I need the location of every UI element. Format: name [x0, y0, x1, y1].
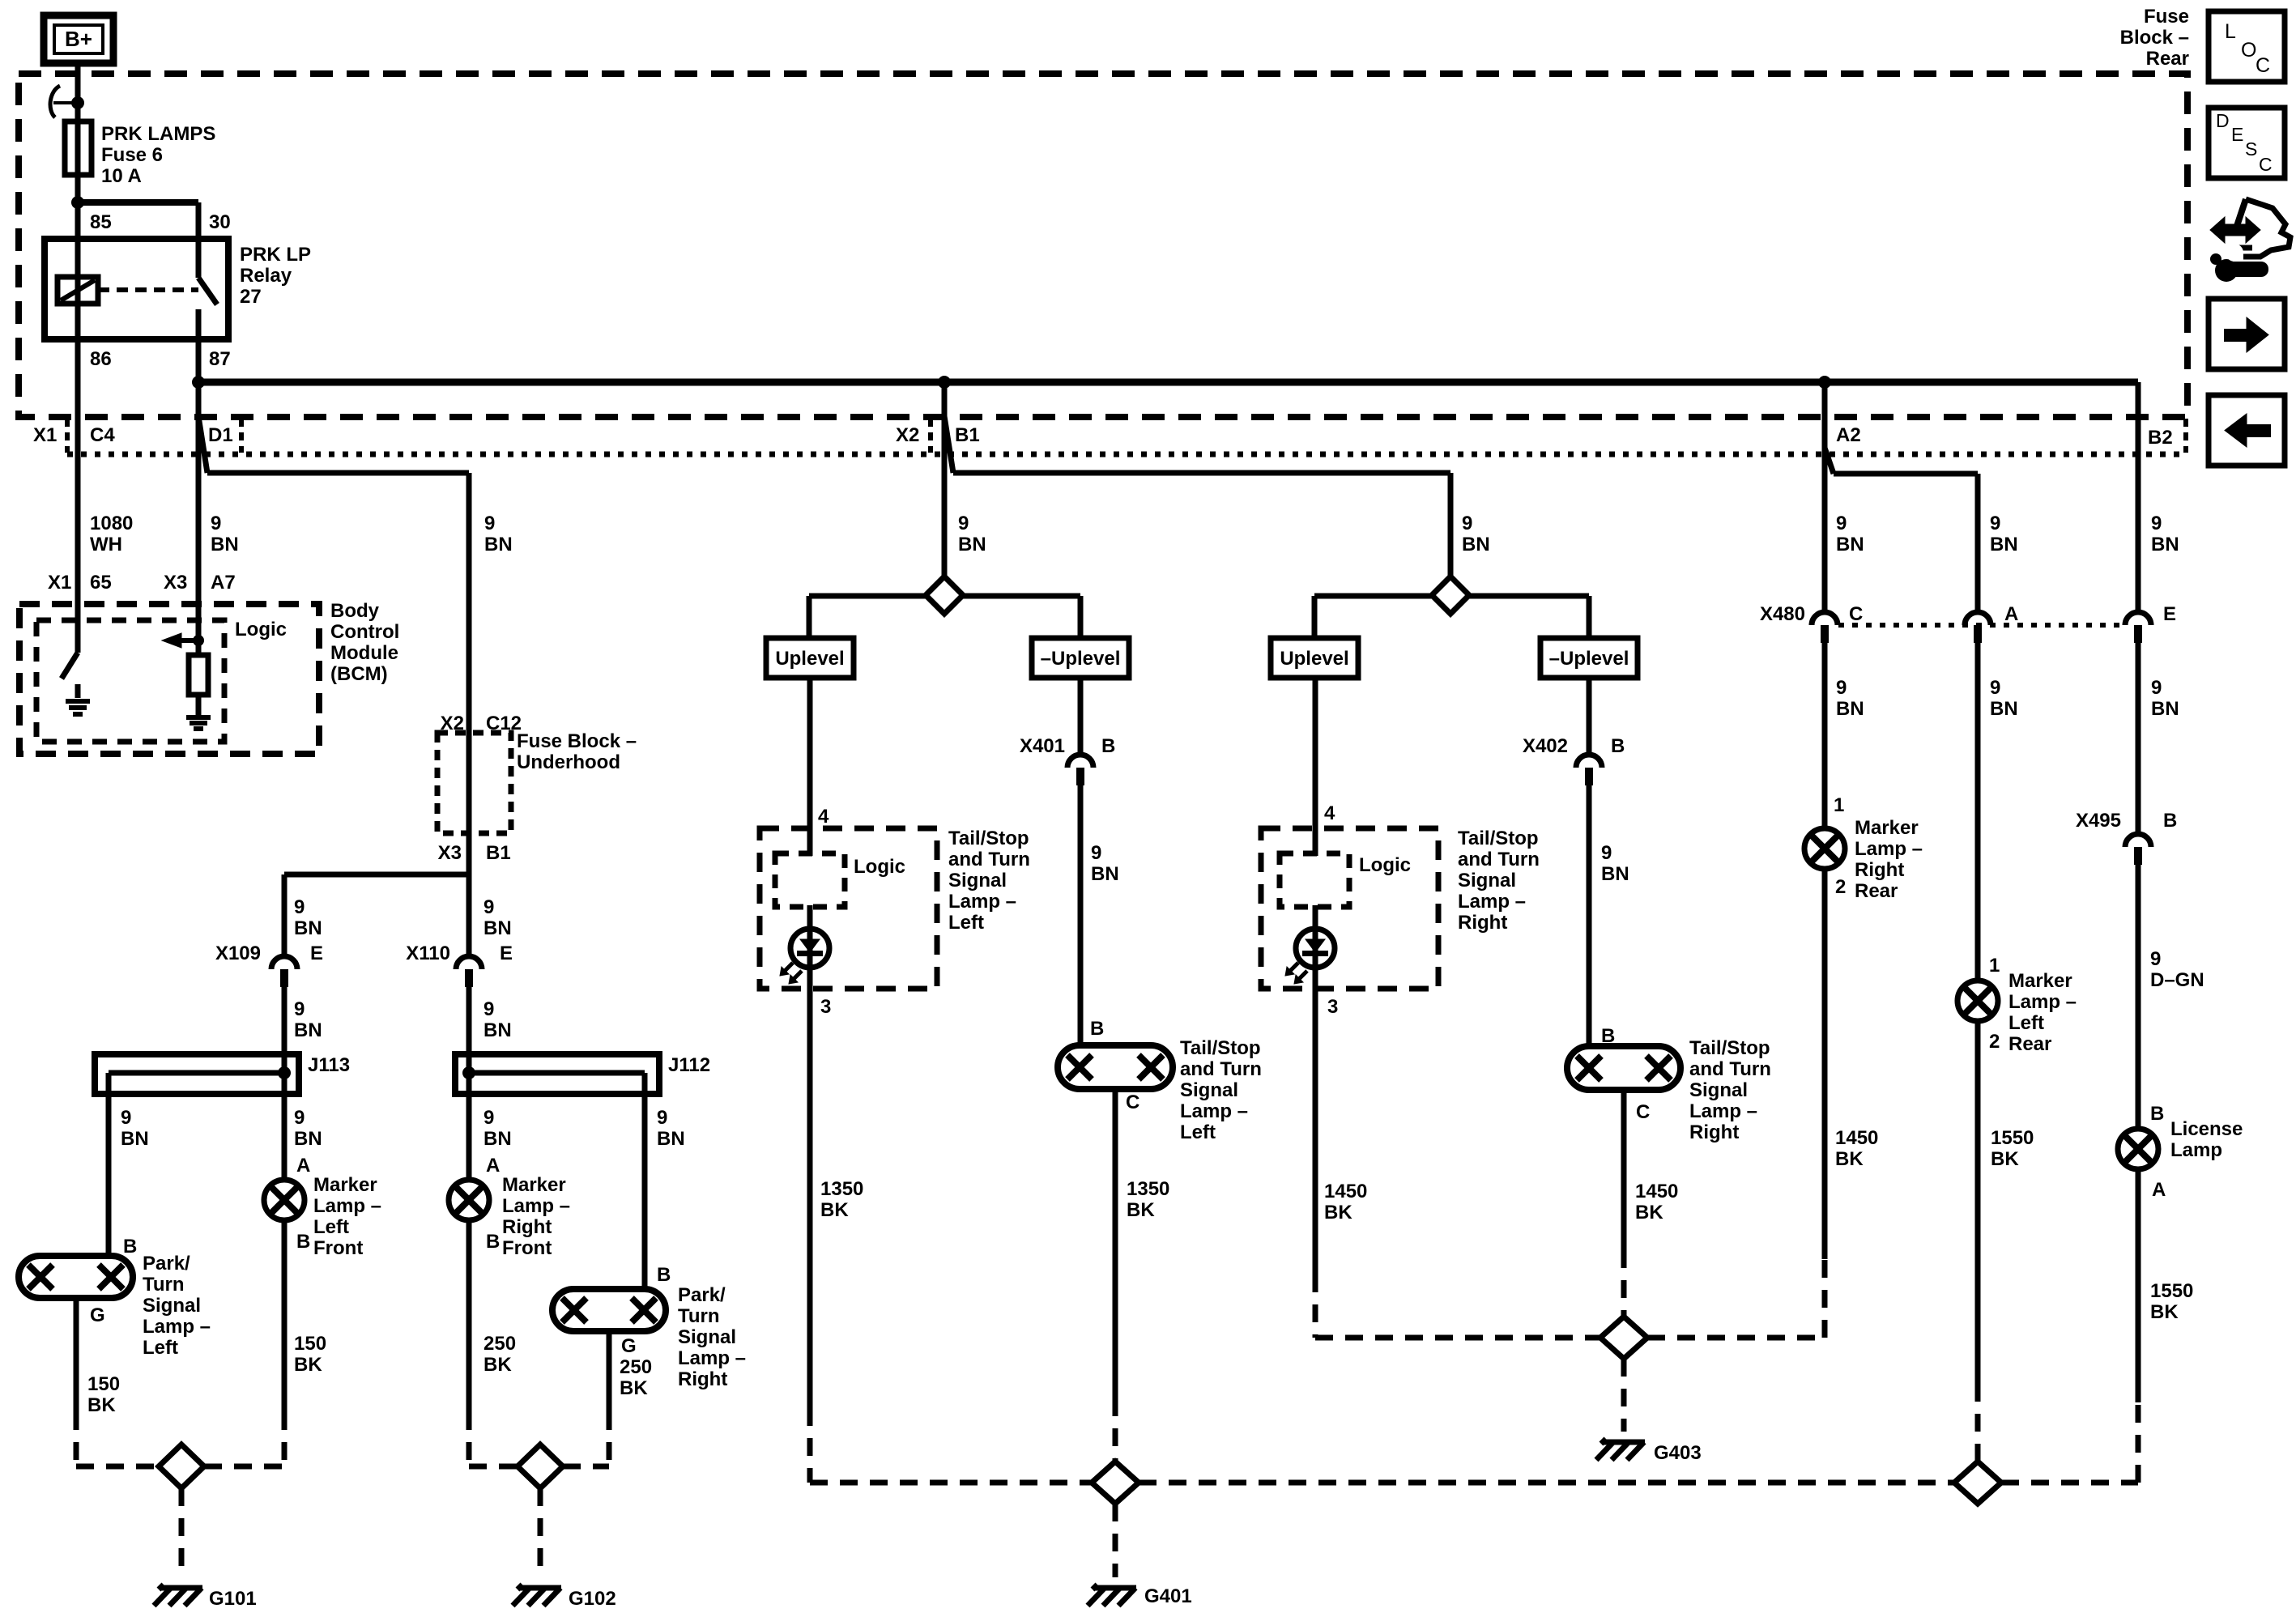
svg-text:Left: Left — [143, 1337, 178, 1359]
svg-text:B: B — [486, 1231, 500, 1253]
svg-text:BK: BK — [1991, 1148, 2019, 1170]
svg-text:Fuse Block –: Fuse Block – — [517, 730, 637, 752]
svg-text:Signal: Signal — [143, 1295, 201, 1317]
svg-text:BK: BK — [483, 1354, 512, 1376]
svg-text:G401: G401 — [1144, 1585, 1192, 1607]
svg-text:9: 9 — [294, 1107, 305, 1129]
svg-text:Tail/Stop: Tail/Stop — [1689, 1037, 1770, 1059]
svg-text:4: 4 — [1324, 802, 1335, 824]
svg-text:Turn: Turn — [678, 1305, 720, 1327]
svg-text:Lamp –: Lamp – — [1180, 1100, 1248, 1122]
svg-text:BK: BK — [294, 1354, 322, 1376]
svg-text:C: C — [1849, 603, 1863, 625]
svg-text:BN: BN — [657, 1128, 685, 1150]
svg-text:Underhood: Underhood — [517, 751, 620, 773]
svg-text:C: C — [1126, 1091, 1139, 1113]
svg-text:Left: Left — [1180, 1121, 1216, 1143]
svg-text:License: License — [2170, 1118, 2243, 1140]
svg-text:Right: Right — [1458, 912, 1507, 934]
svg-text:Left: Left — [948, 912, 984, 934]
svg-text:Tail/Stop: Tail/Stop — [948, 828, 1029, 849]
svg-text:X1: X1 — [33, 424, 57, 446]
svg-text:Turn: Turn — [143, 1274, 185, 1296]
svg-text:G102: G102 — [569, 1588, 616, 1610]
svg-text:Signal: Signal — [1689, 1079, 1748, 1101]
svg-text:A7: A7 — [211, 572, 236, 594]
svg-text:Logic: Logic — [854, 856, 905, 878]
svg-text:X495: X495 — [2076, 810, 2121, 832]
svg-text:9: 9 — [294, 998, 305, 1020]
svg-text:S: S — [2245, 138, 2257, 160]
svg-text:2: 2 — [1835, 876, 1846, 898]
svg-text:Front: Front — [502, 1237, 552, 1259]
svg-text:1450: 1450 — [1835, 1127, 1878, 1149]
svg-text:O: O — [2241, 39, 2256, 62]
svg-text:65: 65 — [90, 572, 112, 594]
svg-text:27: 27 — [240, 286, 262, 308]
svg-text:Signal: Signal — [1458, 870, 1516, 891]
svg-text:A: A — [296, 1155, 310, 1177]
svg-text:4: 4 — [818, 806, 829, 828]
svg-text:BN: BN — [1990, 534, 2018, 555]
svg-text:BN: BN — [294, 917, 322, 939]
svg-text:J112: J112 — [668, 1054, 710, 1076]
svg-text:Control: Control — [330, 621, 399, 643]
svg-text:Right: Right — [1855, 859, 1904, 881]
svg-text:B: B — [1601, 1025, 1615, 1047]
svg-text:Lamp –: Lamp – — [678, 1347, 746, 1369]
svg-text:Park/: Park/ — [678, 1284, 726, 1306]
svg-text:1550: 1550 — [2150, 1280, 2193, 1302]
svg-text:Relay: Relay — [240, 265, 292, 287]
svg-text:E: E — [2231, 124, 2243, 145]
svg-text:BN: BN — [1836, 534, 1864, 555]
svg-text:Logic: Logic — [1359, 854, 1411, 876]
svg-text:9: 9 — [2151, 677, 2162, 699]
svg-text:BN: BN — [1990, 698, 2018, 720]
svg-text:3: 3 — [820, 996, 831, 1018]
svg-text:Left: Left — [313, 1216, 349, 1238]
svg-text:–Uplevel: –Uplevel — [1549, 648, 1629, 670]
svg-text:Lamp –: Lamp – — [2008, 991, 2077, 1013]
svg-text:87: 87 — [209, 348, 231, 370]
svg-text:E: E — [500, 943, 513, 964]
svg-text:2: 2 — [1989, 1031, 2000, 1053]
svg-text:BN: BN — [294, 1128, 322, 1150]
svg-text:Lamp –: Lamp – — [143, 1316, 211, 1338]
svg-text:9: 9 — [294, 896, 305, 918]
svg-text:G101: G101 — [209, 1588, 257, 1610]
svg-text:Rear: Rear — [2146, 48, 2189, 70]
svg-text:9: 9 — [1462, 513, 1472, 534]
svg-text:1450: 1450 — [1635, 1181, 1678, 1202]
svg-text:X3: X3 — [164, 572, 187, 594]
svg-text:PRK LP: PRK LP — [240, 244, 311, 266]
svg-text:Lamp –: Lamp – — [313, 1195, 381, 1217]
svg-text:Rear: Rear — [1855, 880, 1898, 902]
svg-text:30: 30 — [209, 211, 231, 233]
svg-text:B: B — [657, 1264, 671, 1286]
svg-text:Front: Front — [313, 1237, 363, 1259]
svg-text:9: 9 — [657, 1107, 667, 1129]
svg-text:B: B — [2163, 810, 2177, 832]
svg-text:B: B — [1090, 1018, 1104, 1040]
svg-text:Signal: Signal — [948, 870, 1007, 891]
svg-text:X2: X2 — [896, 424, 919, 446]
svg-text:A: A — [486, 1155, 500, 1177]
svg-text:and Turn: and Turn — [1180, 1058, 1262, 1080]
svg-text:Lamp –: Lamp – — [948, 891, 1016, 913]
svg-text:BK: BK — [820, 1199, 849, 1221]
svg-text:BN: BN — [483, 1128, 512, 1150]
svg-text:X402: X402 — [1523, 735, 1568, 757]
svg-text:Lamp –: Lamp – — [502, 1195, 570, 1217]
svg-text:9: 9 — [483, 896, 494, 918]
svg-text:9: 9 — [1990, 513, 2000, 534]
svg-text:BK: BK — [87, 1394, 116, 1416]
svg-text:X1: X1 — [48, 572, 71, 594]
svg-text:L: L — [2225, 20, 2236, 43]
svg-text:G: G — [90, 1304, 105, 1326]
svg-text:and Turn: and Turn — [1689, 1058, 1771, 1080]
svg-text:9: 9 — [1091, 842, 1101, 864]
svg-text:Marker: Marker — [2008, 970, 2072, 992]
svg-text:150: 150 — [294, 1333, 326, 1355]
svg-text:B2: B2 — [2148, 427, 2173, 449]
svg-text:E: E — [2163, 603, 2176, 625]
svg-text:9: 9 — [1836, 513, 1847, 534]
svg-text:1450: 1450 — [1324, 1181, 1367, 1202]
svg-text:BN: BN — [211, 534, 239, 555]
svg-text:B: B — [1611, 735, 1625, 757]
svg-text:1080: 1080 — [90, 513, 133, 534]
svg-text:BN: BN — [483, 917, 512, 939]
svg-text:X2: X2 — [441, 713, 464, 734]
svg-text:Body: Body — [330, 600, 380, 622]
svg-text:9: 9 — [1836, 677, 1847, 699]
svg-text:Fuse: Fuse — [2144, 6, 2189, 28]
svg-text:Module: Module — [330, 642, 398, 664]
svg-text:X401: X401 — [1020, 735, 1065, 757]
svg-text:1: 1 — [1989, 955, 2000, 977]
svg-text:Signal: Signal — [1180, 1079, 1238, 1101]
svg-text:BK: BK — [1127, 1199, 1155, 1221]
svg-text:BK: BK — [1835, 1148, 1864, 1170]
svg-text:BN: BN — [1836, 698, 1864, 720]
svg-text:9: 9 — [211, 513, 221, 534]
svg-text:Lamp: Lamp — [2170, 1139, 2222, 1161]
svg-text:B1: B1 — [955, 424, 980, 446]
svg-text:BK: BK — [1635, 1202, 1663, 1223]
svg-text:Left: Left — [2008, 1012, 2044, 1034]
svg-text:and Turn: and Turn — [948, 849, 1030, 870]
svg-text:BK: BK — [2150, 1301, 2179, 1323]
svg-text:C: C — [2259, 154, 2273, 175]
svg-text:C: C — [1636, 1101, 1650, 1123]
svg-text:BN: BN — [1601, 863, 1629, 885]
svg-text:A2: A2 — [1836, 424, 1861, 446]
svg-text:Logic: Logic — [235, 619, 287, 640]
svg-text:9: 9 — [2150, 948, 2161, 970]
svg-text:1550: 1550 — [1991, 1127, 2034, 1149]
svg-text:G403: G403 — [1654, 1442, 1702, 1464]
svg-text:G: G — [621, 1335, 637, 1357]
svg-text:9: 9 — [2151, 513, 2162, 534]
svg-text:Lamp –: Lamp – — [1855, 838, 1923, 860]
svg-text:BK: BK — [1324, 1202, 1352, 1223]
svg-text:BN: BN — [958, 534, 986, 555]
svg-text:A: A — [2152, 1179, 2166, 1201]
svg-text:D1: D1 — [208, 424, 233, 446]
svg-text:Right: Right — [502, 1216, 552, 1238]
svg-text:B+: B+ — [65, 27, 92, 51]
svg-text:BN: BN — [294, 1019, 322, 1041]
svg-text:150: 150 — [87, 1373, 120, 1395]
svg-text:D–GN: D–GN — [2150, 969, 2204, 991]
svg-text:10 A: 10 A — [101, 165, 142, 187]
svg-text:B: B — [2150, 1103, 2164, 1125]
svg-text:D: D — [2216, 110, 2230, 131]
svg-text:PRK LAMPS: PRK LAMPS — [101, 123, 215, 145]
svg-text:9: 9 — [958, 513, 969, 534]
svg-text:250: 250 — [483, 1333, 516, 1355]
svg-text:Signal: Signal — [678, 1326, 736, 1348]
svg-text:X109: X109 — [215, 943, 261, 964]
svg-text:3: 3 — [1327, 996, 1338, 1018]
svg-text:1350: 1350 — [1127, 1178, 1169, 1200]
svg-text:B: B — [296, 1231, 310, 1253]
svg-text:B: B — [1101, 735, 1115, 757]
svg-text:BN: BN — [121, 1128, 149, 1150]
svg-text:BK: BK — [620, 1377, 648, 1399]
svg-text:X480: X480 — [1760, 603, 1805, 625]
svg-text:J113: J113 — [308, 1054, 350, 1076]
svg-text:Right: Right — [1689, 1121, 1739, 1143]
svg-text:1: 1 — [1834, 794, 1844, 816]
svg-text:and Turn: and Turn — [1458, 849, 1540, 870]
svg-text:–Uplevel: –Uplevel — [1041, 648, 1121, 670]
svg-text:Tail/Stop: Tail/Stop — [1180, 1037, 1261, 1059]
svg-text:E: E — [310, 943, 323, 964]
svg-text:Right: Right — [678, 1368, 727, 1390]
svg-text:B1: B1 — [486, 842, 511, 864]
svg-text:A: A — [2004, 603, 2018, 625]
svg-text:Fuse 6: Fuse 6 — [101, 144, 163, 166]
svg-text:Uplevel: Uplevel — [775, 648, 844, 670]
svg-text:85: 85 — [90, 211, 112, 233]
svg-text:9: 9 — [1990, 677, 2000, 699]
svg-text:X3: X3 — [438, 842, 462, 864]
svg-text:86: 86 — [90, 348, 112, 370]
svg-text:BN: BN — [2151, 534, 2179, 555]
svg-text:Tail/Stop: Tail/Stop — [1458, 828, 1539, 849]
svg-text:Marker: Marker — [313, 1174, 377, 1196]
svg-text:BN: BN — [1091, 863, 1119, 885]
svg-text:BN: BN — [1462, 534, 1490, 555]
svg-text:250: 250 — [620, 1356, 652, 1378]
svg-text:BN: BN — [484, 534, 513, 555]
svg-text:Lamp –: Lamp – — [1458, 891, 1526, 913]
svg-text:Block –: Block – — [2120, 27, 2189, 49]
svg-text:C: C — [2256, 54, 2270, 77]
svg-text:Marker: Marker — [1855, 817, 1919, 839]
svg-text:9: 9 — [484, 513, 495, 534]
svg-text:Lamp –: Lamp – — [1689, 1100, 1757, 1122]
svg-text:Uplevel: Uplevel — [1280, 648, 1348, 670]
svg-text:9: 9 — [483, 1107, 494, 1129]
svg-text:1350: 1350 — [820, 1178, 863, 1200]
svg-text:X110: X110 — [406, 943, 450, 964]
svg-text:BN: BN — [483, 1019, 512, 1041]
svg-text:WH: WH — [90, 534, 122, 555]
svg-text:Rear: Rear — [2008, 1033, 2051, 1055]
svg-text:9: 9 — [1601, 842, 1612, 864]
svg-text:BN: BN — [2151, 698, 2179, 720]
svg-text:Marker: Marker — [502, 1174, 566, 1196]
svg-text:9: 9 — [483, 998, 494, 1020]
svg-text:(BCM): (BCM) — [330, 663, 388, 685]
svg-text:9: 9 — [121, 1107, 131, 1129]
svg-text:C4: C4 — [90, 424, 115, 446]
svg-text:Park/: Park/ — [143, 1253, 190, 1274]
svg-text:B: B — [123, 1236, 137, 1257]
